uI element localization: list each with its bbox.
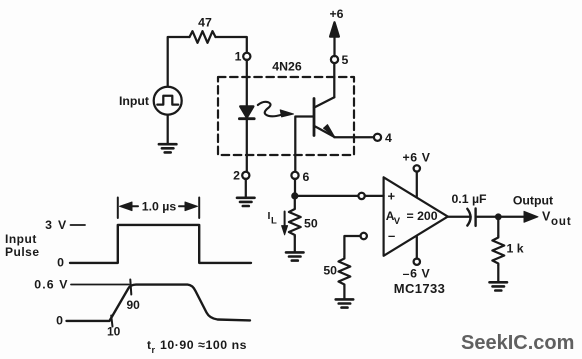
LED D1 [240, 106, 253, 117]
wire [497, 265, 499, 282]
wire [216, 37, 247, 53]
svg-text:0: 0 [57, 256, 64, 270]
junction [291, 192, 298, 199]
source V1 input pulse [154, 87, 182, 115]
wire [343, 286, 345, 299]
ground [245, 179, 247, 198]
ground [336, 299, 354, 307]
resistor R4 1k [492, 236, 504, 265]
svg-text:Input: Input [119, 94, 149, 108]
wire [497, 220, 499, 236]
op-amp U2 [384, 177, 448, 256]
svg-text:out: out [551, 216, 572, 228]
svg-text:= 200: = 200 [407, 209, 438, 223]
transistor Q1 [313, 99, 316, 136]
dimension 1.0 us [118, 198, 199, 219]
wire emitter [334, 136, 374, 138]
wire [246, 60, 248, 106]
output arrow [498, 216, 525, 218]
node pin 1 [243, 53, 250, 60]
svg-text:4N26: 4N26 [272, 60, 302, 74]
wire [294, 179, 296, 196]
svg-text:0.1 µF: 0.1 µF [451, 192, 487, 206]
power -6V [414, 259, 420, 265]
svg-text:t: t [147, 338, 151, 352]
tick 10 [111, 316, 112, 327]
resistor R1 47 [190, 31, 216, 43]
svg-text:10: 10 [107, 325, 121, 339]
svg-text:SeekIC.com: SeekIC.com [461, 332, 574, 354]
svg-text:3 V: 3 V [45, 218, 67, 232]
wire [168, 37, 190, 87]
wire [246, 119, 248, 173]
ground [286, 252, 304, 260]
wire [167, 115, 169, 144]
wire collector [333, 63, 335, 97]
resistor R2 50 [289, 200, 301, 237]
tick 90 [130, 280, 131, 295]
resistor R3 50 [339, 257, 351, 286]
wire [344, 236, 360, 257]
svg-text:–: – [388, 228, 395, 243]
svg-text:1 k: 1 k [507, 242, 524, 256]
waveform input pulse [70, 225, 251, 263]
svg-text:47: 47 [198, 16, 212, 30]
svg-text:50: 50 [304, 217, 318, 231]
svg-text:Input: Input [5, 232, 37, 246]
svg-text:90: 90 [127, 298, 141, 312]
node +input [358, 193, 364, 199]
svg-text:r: r [152, 345, 156, 355]
waveform output [67, 285, 251, 321]
svg-text:50: 50 [323, 264, 337, 278]
ground [159, 144, 177, 152]
power +6 [333, 34, 335, 56]
svg-text:L: L [271, 216, 277, 227]
capacitor C1 0.1uF [467, 209, 470, 226]
wire [448, 216, 471, 218]
svg-text:–6 V: –6 V [403, 267, 431, 281]
svg-text:0: 0 [56, 314, 63, 328]
wire [295, 195, 359, 197]
svg-text:+: + [388, 189, 396, 204]
svg-text:1: 1 [235, 50, 242, 64]
svg-text:5: 5 [342, 53, 349, 67]
wire base [295, 117, 313, 173]
svg-text:Output: Output [513, 194, 553, 208]
node pin 4 [374, 134, 381, 141]
light arrow [258, 102, 283, 117]
svg-text:V: V [542, 210, 551, 224]
svg-text:Pulse: Pulse [5, 245, 40, 259]
node -input [361, 233, 367, 239]
wire [294, 237, 296, 252]
svg-text:V: V [394, 216, 401, 227]
svg-text:10·90 ≈100 ns: 10·90 ≈100 ns [160, 338, 247, 352]
svg-text:0.6 V: 0.6 V [34, 278, 68, 292]
svg-text:+6 V: +6 V [402, 151, 430, 165]
svg-text:2: 2 [233, 169, 240, 183]
optocoupler U1 4N26 [218, 77, 354, 155]
svg-text:MC1733: MC1733 [394, 281, 446, 296]
node pin 6 [291, 172, 298, 179]
svg-text:4: 4 [385, 131, 392, 145]
ground [490, 282, 508, 290]
node pin 2 [242, 172, 249, 179]
svg-text:1.0 µs: 1.0 µs [142, 200, 177, 214]
svg-text:+6: +6 [329, 7, 343, 21]
junction [495, 213, 502, 220]
wire [477, 216, 498, 218]
node pin 5 [331, 56, 338, 63]
svg-text:6: 6 [303, 170, 310, 184]
